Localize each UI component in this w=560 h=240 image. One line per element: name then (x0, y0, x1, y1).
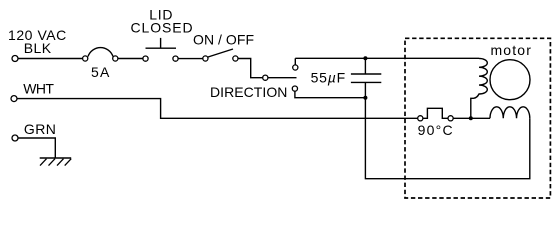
svg-text:motor: motor (491, 42, 533, 58)
svg-text:5A: 5A (91, 64, 111, 80)
svg-text:90°C: 90°C (418, 122, 454, 138)
svg-text:GRN: GRN (24, 121, 56, 137)
svg-text:ON / OFF: ON / OFF (193, 32, 254, 48)
svg-text:CLOSED: CLOSED (131, 20, 194, 36)
svg-text:DIRECTION: DIRECTION (210, 84, 287, 100)
svg-text:BLK: BLK (24, 40, 52, 56)
svg-text:55µF: 55µF (311, 70, 346, 86)
svg-text:WHT: WHT (23, 81, 54, 97)
